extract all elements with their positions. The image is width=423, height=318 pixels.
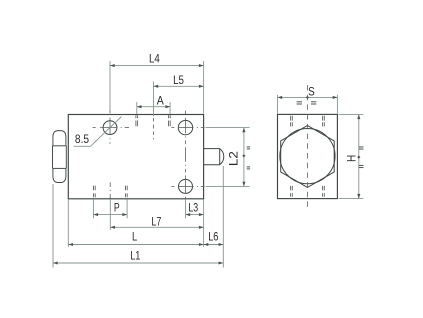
dimension P bbox=[93, 199, 127, 218]
hidden tapped hole bottom face bbox=[94, 182, 128, 199]
svg-text:L4: L4 bbox=[149, 51, 160, 65]
svg-text:L3: L3 bbox=[188, 201, 198, 215]
dimension L4 bbox=[110, 51, 204, 113]
end view vertical center line bbox=[306, 85, 308, 207]
hole bottom-right bbox=[179, 179, 193, 193]
svg-text:P: P bbox=[114, 200, 120, 214]
port boss right side bbox=[204, 149, 224, 165]
svg-text:S: S bbox=[308, 85, 315, 99]
leader label 8.5 bbox=[74, 117, 122, 147]
svg-text:L7: L7 bbox=[151, 214, 161, 228]
svg-text:L6: L6 bbox=[208, 230, 218, 244]
valve body outline bbox=[68, 115, 203, 199]
svg-text:8.5: 8.5 bbox=[75, 132, 89, 146]
dimension L7 bbox=[110, 199, 203, 230]
end view hidden port threads bbox=[291, 116, 325, 197]
hex plug side view bbox=[53, 131, 67, 183]
center line horizontal hole top-right bbox=[171, 127, 204, 129]
center line vertical hole top-left bbox=[109, 110, 111, 144]
hole top-left bbox=[103, 121, 117, 135]
center line horizontal hole top-left bbox=[93, 127, 129, 129]
hole top-right bbox=[178, 120, 192, 134]
svg-text:A: A bbox=[157, 94, 165, 108]
dimension A bbox=[137, 94, 170, 114]
dimension L bbox=[68, 199, 203, 247]
end view body outline bbox=[278, 114, 338, 198]
dimension H bbox=[339, 114, 364, 198]
hidden tapped hole top face bbox=[136, 115, 170, 139]
dimension L3 bbox=[186, 199, 204, 218]
dimension L2 bbox=[206, 128, 251, 187]
svg-text:L: L bbox=[132, 229, 137, 243]
hex plug chamfer circle bbox=[280, 129, 335, 184]
center line horizontal hole bottom-right bbox=[171, 185, 204, 187]
svg-text:L1: L1 bbox=[130, 249, 140, 263]
dimension L5 bbox=[154, 73, 204, 116]
svg-text:L2: L2 bbox=[227, 151, 241, 166]
hex plug end view hexagon bbox=[281, 126, 335, 188]
center line vertical right holes bbox=[185, 111, 187, 199]
dimension L6 bbox=[204, 166, 224, 268]
dimension L1 bbox=[53, 184, 223, 268]
svg-text:L5: L5 bbox=[173, 73, 184, 87]
dimension S bbox=[278, 85, 338, 114]
svg-text:H: H bbox=[344, 155, 358, 162]
